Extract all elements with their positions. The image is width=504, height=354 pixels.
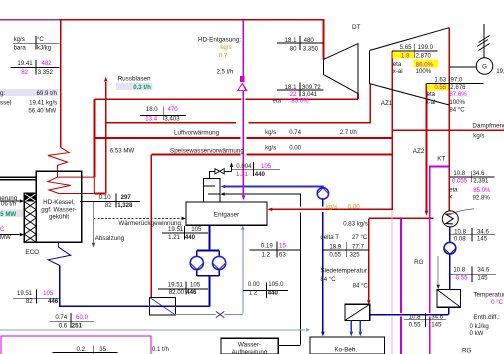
svg-text:63: 63 <box>279 251 286 258</box>
node: make-up inlet cross <box>243 282 288 298</box>
wire: pump to right HX <box>449 254 451 289</box>
svg-text:kJ/kg: kJ/kg <box>37 44 51 51</box>
svg-text:19,: 19, <box>496 68 504 75</box>
svg-text:18.0: 18.0 <box>146 106 158 113</box>
svg-text:ECO: ECO <box>25 249 39 256</box>
svg-text:77.7: 77.7 <box>352 243 364 250</box>
svg-text:AZ1: AZ1 <box>381 100 393 107</box>
svg-text:251: 251 <box>72 323 83 330</box>
svg-text:10.8: 10.8 <box>453 170 465 177</box>
svg-text:105: 105 <box>261 163 272 170</box>
dome vent line with valve <box>210 167 232 179</box>
svg-text:kg/s: kg/s <box>326 203 337 210</box>
wire: AZ1 extraction down to Entgaser <box>269 51 392 209</box>
svg-text:0.00: 0.00 <box>348 203 360 210</box>
svg-text:0.00: 0.00 <box>248 281 260 288</box>
wire: boiler riser from header <box>60 20 62 148</box>
svg-text:0.74: 0.74 <box>55 314 67 321</box>
svg-text:10.8: 10.8 <box>453 267 465 274</box>
svg-text:87.6%: 87.6% <box>449 91 467 98</box>
svg-text:19.41: 19.41 <box>17 60 33 67</box>
PART3b: steel blue make-up lines <box>0 226 310 332</box>
svg-text:x-al: x-al <box>426 99 436 106</box>
node: HX feedwater cross <box>49 313 94 328</box>
wire: drop to middle HX <box>368 218 370 300</box>
svg-text:C: C <box>0 226 5 233</box>
middle HX box <box>345 304 370 320</box>
svg-text:2,870: 2,870 <box>416 53 432 60</box>
svg-text:AZ2: AZ2 <box>413 148 425 155</box>
right HX box <box>437 290 461 308</box>
svg-text:0.74: 0.74 <box>289 129 301 136</box>
wire: into circulation pump <box>322 187 324 189</box>
svg-text:34.6: 34.6 <box>473 170 485 177</box>
wire: Entgaser outlet to feed pumps <box>197 225 219 256</box>
node: blowdown cross <box>53 345 118 354</box>
svg-text:3,403: 3,403 <box>164 115 180 122</box>
generator G circle <box>476 58 493 75</box>
svg-text:06 t/h: 06 t/h <box>1 201 16 208</box>
svg-text:0.55: 0.55 <box>329 252 341 259</box>
node: AZ1 extraction cross <box>392 44 438 58</box>
svg-text:56.40 MW: 56.40 MW <box>28 107 56 114</box>
wire: KT exhaust to condenser <box>448 28 450 211</box>
wire: Speisewasser steam drop to bottom HX <box>150 155 152 298</box>
svg-text:19.51: 19.51 <box>168 226 184 233</box>
svg-text:Enth.diff.:: Enth.diff.: <box>473 314 500 321</box>
node: condensate cross 2 <box>449 267 496 283</box>
PART3: blue water lines <box>48 185 456 337</box>
svg-text:199.0: 199.0 <box>418 44 434 51</box>
wire: pump discharge down to Ko-Beh <box>322 199 324 331</box>
arrow: into dome <box>221 192 225 195</box>
svg-text:80: 80 <box>290 45 297 52</box>
svg-text:kg/s: kg/s <box>14 36 25 43</box>
arrow: into Entgaser top <box>242 195 246 200</box>
svg-text:0.08: 0.08 <box>454 235 466 242</box>
svg-text:446: 446 <box>48 298 59 305</box>
arrow: into middle HX <box>367 300 371 304</box>
middle HX diagonal <box>345 304 370 320</box>
blowdown tank magenta box <box>1 336 151 354</box>
node: legend cross <box>13 36 60 49</box>
boiler HD-Kessel box <box>36 171 82 242</box>
right HX diagonal <box>437 290 461 308</box>
svg-text:0 °C: 0 °C <box>491 299 504 306</box>
make-up water line from dome to water treatment <box>225 194 301 346</box>
svg-text:105.0: 105.0 <box>268 281 284 288</box>
svg-text:19.51: 19.51 <box>17 290 33 297</box>
svg-text:Wasser-: Wasser- <box>238 342 261 349</box>
svg-text:delta T: delta T <box>320 234 339 241</box>
wire: magenta header segment top-left <box>0 19 60 21</box>
left HX (Waermerueckgewinnung) box <box>149 297 175 315</box>
node: KT condenser cross <box>450 171 495 182</box>
svg-text:0.3 t/h: 0.3 t/h <box>133 84 151 91</box>
node: AZ1 inlet cross <box>140 106 186 120</box>
svg-text:1.8: 1.8 <box>401 53 410 60</box>
ECO hatched column <box>24 193 36 242</box>
wire: Dampfmenge header y130 <box>392 129 504 131</box>
svg-text:82: 82 <box>26 298 33 305</box>
node: make-up cross <box>249 241 300 257</box>
svg-text:eta: eta <box>427 91 436 98</box>
svg-text:5.65: 5.65 <box>400 44 412 51</box>
svg-text:82.00: 82.00 <box>169 289 185 296</box>
svg-text:440: 440 <box>185 234 196 241</box>
svg-text:0.55: 0.55 <box>434 84 446 91</box>
arrow: vent up <box>230 162 233 167</box>
svg-text:482: 482 <box>42 60 53 67</box>
turbine DT <box>324 44 359 94</box>
svg-text:60.0: 60.0 <box>76 314 88 321</box>
node: vent cross <box>232 162 280 176</box>
PART1: red steam lines <box>48 20 504 305</box>
svg-text:Temperatur: Temperatur <box>473 291 504 298</box>
gray drop to right HX <box>437 256 439 285</box>
svg-text:kg/s: kg/s <box>473 132 484 139</box>
svg-text:2,391: 2,391 <box>473 177 489 184</box>
svg-text:0.00: 0.00 <box>289 145 301 152</box>
svg-text:69.9 t/h: 69.9 t/h <box>37 90 57 97</box>
node: boiler outlet cross <box>80 193 140 207</box>
svg-text:92.8%: 92.8% <box>473 195 491 202</box>
relief valve symbol <box>240 77 244 82</box>
svg-text:0.055: 0.055 <box>452 177 468 184</box>
svg-text:Entgaser: Entgaser <box>214 212 239 219</box>
svg-text:Luftvorwärmung: Luftvorwärmung <box>174 130 220 137</box>
svg-text:34.6: 34.6 <box>431 314 443 321</box>
Ko-Beh. box <box>310 337 385 354</box>
svg-text:1.63: 1.63 <box>434 77 446 84</box>
left HX diagonal <box>149 297 175 315</box>
node: KT inlet cross <box>426 76 483 90</box>
svg-text:RG: RG <box>462 348 472 354</box>
svg-text:18.9: 18.9 <box>329 243 341 250</box>
svg-text:1.2: 1.2 <box>262 251 271 258</box>
wire: Speisewasservorwaermung header y154.5 <box>151 154 392 156</box>
svg-text:34.6: 34.6 <box>477 228 489 235</box>
wire: RG steam line y218.3 <box>369 217 434 219</box>
dashed Waermerueckgewinnung line with arrow <box>94 217 182 219</box>
svg-text:KT: KT <box>437 156 445 163</box>
svg-text:1,328: 1,328 <box>117 202 133 209</box>
svg-text:eta: eta <box>273 97 282 104</box>
svg-text:ggf. Wasser-: ggf. Wasser- <box>41 206 76 213</box>
svg-text:297: 297 <box>121 194 132 201</box>
svg-text:HD-Entgasung:: HD-Entgasung: <box>198 37 241 44</box>
svg-text:Russblasen: Russblasen <box>118 75 151 82</box>
svg-text:480: 480 <box>304 37 315 44</box>
pump: feedwater pump 1 <box>190 256 203 269</box>
svg-text:0 kW: 0 kW <box>470 330 484 337</box>
svg-text:145: 145 <box>477 235 488 242</box>
svg-text:309.72: 309.72 <box>302 84 321 91</box>
wire: boiler outlet riser x105.7 with sootblowing arrow <box>105 82 107 194</box>
svg-text:Speisewasservorwärmung: Speisewasservorwärmung <box>170 148 244 155</box>
node: Entgaser outlet cross <box>162 226 208 239</box>
svg-text:15: 15 <box>279 242 286 249</box>
burner air arrows into ECO <box>0 201 20 235</box>
svg-text:10.8: 10.8 <box>409 314 421 321</box>
svg-text:105: 105 <box>190 281 201 288</box>
svg-text:34.6: 34.6 <box>477 267 489 274</box>
arrow: into Entgaser right <box>267 208 272 212</box>
svg-text:446: 446 <box>186 289 197 296</box>
svg-text:HD-Kessel,: HD-Kessel, <box>43 199 75 206</box>
svg-text:19.41 kg/s: 19.41 kg/s <box>29 99 57 106</box>
svg-text:440: 440 <box>255 171 266 178</box>
pump: feedwater pump 2 <box>213 256 226 269</box>
svg-text:g:: g: <box>0 90 6 97</box>
PART2b: gray lines <box>92 202 440 289</box>
svg-text:Siedetemperatur: Siedetemperatur <box>320 268 367 275</box>
wire: KT line to condenser bypass <box>430 167 449 354</box>
wire: light pink drop x392 <box>391 210 393 354</box>
svg-text:2.7 t/h: 2.7 t/h <box>340 129 357 136</box>
node: live steam cross <box>10 60 59 75</box>
condenser circle with coil <box>442 211 458 227</box>
wire: RG magenta drop x401 <box>400 218 402 354</box>
Entgaser vessel <box>186 202 267 225</box>
svg-text:MW: MW <box>0 234 11 241</box>
svg-text:84 °C: 84 °C <box>353 283 369 290</box>
wires: middle HX outlets into Ko-Beh <box>351 321 360 332</box>
arrow: into dome <box>221 185 225 188</box>
svg-text:bara: bara <box>14 44 27 51</box>
wire: left riser x94.5 <box>94 99 96 177</box>
svg-text:97.0: 97.0 <box>451 77 463 84</box>
svg-text:85.0%: 85.0% <box>291 97 309 104</box>
pump: circulation pump circle <box>317 188 328 199</box>
svg-text:84 °C: 84 °C <box>449 107 465 114</box>
wire: condenser to condensate pump <box>449 227 451 242</box>
svg-text:82: 82 <box>21 69 28 76</box>
wire: pump discharges join <box>197 270 219 276</box>
svg-text:0.2: 0.2 <box>77 346 86 353</box>
turbine AZ1 <box>370 28 450 105</box>
generator shaft <box>450 24 484 67</box>
svg-text:470: 470 <box>168 106 179 113</box>
wire: live steam line y122.9 to AZ1 <box>106 84 371 123</box>
lavender overflow line with arrow <box>0 329 306 331</box>
svg-text:19.51: 19.51 <box>168 281 184 288</box>
node: delta T cross <box>323 242 369 257</box>
pump: condensate pump <box>444 242 456 254</box>
svg-text:x-al: x-al <box>393 68 403 75</box>
svg-text:3,350: 3,350 <box>303 45 319 52</box>
svg-text:3,352: 3,352 <box>38 69 54 76</box>
svg-text:145: 145 <box>477 275 488 282</box>
svg-text:0.83 kg/s: 0.83 kg/s <box>343 221 368 228</box>
svg-text:RG: RG <box>414 259 424 266</box>
svg-text:100%: 100% <box>449 99 465 106</box>
wire: boiler steam outlet to risers <box>94 193 105 195</box>
svg-text:0.004: 0.004 <box>236 163 252 170</box>
wire: Luftvorwaermung header y138 <box>95 137 393 139</box>
svg-text:1.2: 1.2 <box>249 290 258 297</box>
svg-text:2.5 t/h: 2.5 t/h <box>216 68 233 75</box>
svg-text:kg/s: kg/s <box>220 44 231 51</box>
wire: make-up into Entgaser bottom <box>176 229 243 315</box>
svg-text:82: 82 <box>105 202 112 209</box>
wire: HD-Entgasung steam drop <box>242 20 244 196</box>
deaerator dome <box>204 179 221 202</box>
svg-text:105: 105 <box>43 290 54 297</box>
svg-text:0.6: 0.6 <box>59 323 68 330</box>
wire: DT exhaust line to air preheater header <box>95 94 359 100</box>
svg-text:kg/s: kg/s <box>265 145 276 152</box>
svg-text:0.55: 0.55 <box>456 275 468 282</box>
node: feedpump outlet cross <box>158 281 208 294</box>
svg-text:0 kJ/kg: 0 kJ/kg <box>470 323 489 330</box>
svg-text:°C: °C <box>37 36 44 43</box>
highlight bands <box>0 89 58 96</box>
svg-text:x: x <box>449 193 452 200</box>
shaft hatch marks <box>477 36 490 51</box>
svg-text:5 MW: 5 MW <box>0 211 16 218</box>
wire: main steam header to DT turbine <box>60 20 324 60</box>
svg-text:kg/s: kg/s <box>265 129 276 136</box>
svg-text:10.8: 10.8 <box>454 228 466 235</box>
svg-text:145: 145 <box>431 322 442 329</box>
svg-text:1.21: 1.21 <box>236 171 248 178</box>
dome tray lines <box>204 186 221 194</box>
svg-text:G: G <box>482 63 487 70</box>
node: condensate cross 3 <box>404 313 446 327</box>
Absalzung gray line with arrow <box>93 202 95 243</box>
svg-text:35: 35 <box>99 346 106 353</box>
wire: AZ2 extraction with arrow <box>426 83 428 210</box>
ECO zigzag <box>48 242 70 265</box>
svg-text:0.19: 0.19 <box>261 242 273 249</box>
svg-text:85.0%: 85.0% <box>473 187 491 194</box>
svg-text:ssel: ssel <box>0 99 11 106</box>
svg-text:18.1: 18.1 <box>285 84 297 91</box>
svg-text:0.7: 0.7 <box>219 52 228 59</box>
node: DT exhaust cross <box>277 83 324 97</box>
node: condensate cross 1 <box>450 228 495 242</box>
svg-text:DT: DT <box>352 24 361 31</box>
arrow: AZ2 down <box>425 211 429 216</box>
arrow: into Ko-Beh <box>321 332 325 337</box>
Wasser-Aufbereitung box <box>221 338 278 354</box>
svg-text:0.55: 0.55 <box>409 322 421 329</box>
wire: condensate return into dome (blue) <box>225 186 323 188</box>
node: DT inlet cross <box>277 36 324 50</box>
flue gas duct double line <box>0 177 36 180</box>
arrow: up into Entgaser <box>241 226 245 230</box>
svg-text:0.10: 0.10 <box>99 194 111 201</box>
wire: condensate from right HX to middle HX <box>370 307 449 314</box>
svg-text:0.1 t/h: 0.1 t/h <box>152 346 169 353</box>
svg-text:1.21: 1.21 <box>168 234 180 241</box>
svg-text:100%: 100% <box>416 68 432 75</box>
svg-text:325: 325 <box>350 252 361 259</box>
arrow: Russblasen up <box>104 77 108 82</box>
svg-text:Absalzung: Absalzung <box>95 235 125 242</box>
svg-text:gekühlt: gekühlt <box>49 214 70 221</box>
boiler evaporator loop zigzag <box>48 177 95 193</box>
svg-text:440: 440 <box>268 290 279 297</box>
valve on make-up line <box>216 311 224 317</box>
svg-text:84 °C: 84 °C <box>320 276 336 283</box>
boiler heating zigzag upper <box>48 148 69 178</box>
svg-text:eta: eta <box>449 186 458 193</box>
svg-text:105: 105 <box>191 226 202 233</box>
svg-text:18.1: 18.1 <box>285 37 297 44</box>
svg-text:Dampfmenge: Dampfmenge <box>472 122 504 129</box>
wire: feedwater down and left through HX to ECO <box>60 266 210 307</box>
svg-text:6.53 MW: 6.53 MW <box>110 147 135 154</box>
svg-text:Ko-Beh.: Ko-Beh. <box>334 347 357 354</box>
svg-text:27 °C: 27 °C <box>352 234 368 241</box>
node: ECO inlet cross <box>13 290 59 304</box>
svg-text:13.4: 13.4 <box>145 115 157 122</box>
valve on vent line <box>215 169 224 174</box>
condenser cooling line <box>452 209 475 214</box>
svg-text:Aufbereitung: Aufbereitung <box>232 349 268 354</box>
